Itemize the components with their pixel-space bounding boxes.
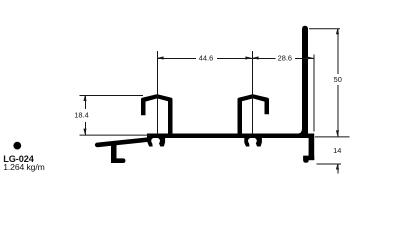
extension line: web bottom right [315, 136, 350, 138]
svg-text:44.6: 44.6 [199, 54, 213, 63]
arrowhead: 28.6 left [252, 56, 259, 59]
fillet: wall-to-web inner corner [298, 129, 303, 134]
dim line: 50 upper segment [337, 29, 339, 74]
svg-text:28.6: 28.6 [278, 54, 292, 63]
svg-text:18.4: 18.4 [74, 111, 88, 120]
arrowhead: 50 top [336, 28, 339, 34]
extension line: right hook centerline [252, 51, 254, 134]
extension line: foot bottom [317, 163, 342, 165]
extension line: wall top [309, 28, 340, 30]
wire: right vertical leg below web [309, 138, 315, 161]
wall: tall right vertical wall [302, 26, 308, 134]
arrowhead: 18.4 bottom [83, 129, 86, 135]
arrowhead: 18.4 top [83, 95, 86, 101]
dim line: 44.6 right segment [217, 58, 253, 60]
screw boss: right screw port under web [244, 137, 262, 146]
wire: left bottom foot [111, 158, 125, 163]
dim line: 18.4 upper segment [85, 96, 87, 110]
dim line: 14 lower stem [337, 164, 339, 174]
arrowhead: 44.6 left [157, 56, 164, 59]
arrowhead: 50 bottom / 14 top [336, 130, 339, 136]
extension line: right leg face [313, 55, 315, 132]
dim line: 44.6 left segment [158, 58, 197, 60]
svg-text:14: 14 [333, 146, 341, 155]
extension line: 18.4 bottom at web top [80, 134, 151, 136]
svg-text:1.264 kg/m: 1.264 kg/m [3, 162, 45, 172]
wire: right bottom foot with lip [303, 156, 314, 163]
dim line: 28.6 left segment [253, 58, 276, 60]
arrowhead: 14 bottom [336, 164, 339, 170]
arrowhead: 28.6 right [307, 56, 314, 59]
screw boss: left screw port under web [148, 137, 166, 146]
dim line: 50 lower segment [337, 85, 339, 137]
dim line: 28.6 right segment [295, 58, 314, 60]
wire: left slanted bottom flange [97, 140, 149, 145]
wire: main horizontal web of profile [147, 134, 314, 139]
svg-text:50: 50 [334, 75, 342, 84]
bullet: catalog item marker [13, 142, 21, 150]
dim line: 18.4 lower segment [85, 122, 87, 135]
arrowhead: 44.6 right [245, 56, 252, 59]
extension line: 18.4 top at hook top [80, 95, 144, 97]
wire: left vertical leg [111, 144, 117, 163]
extension line: left hook centerline [157, 51, 159, 134]
hook: left glazing hook [141, 94, 173, 134]
hook: right glazing hook (mirrored) [238, 94, 270, 134]
